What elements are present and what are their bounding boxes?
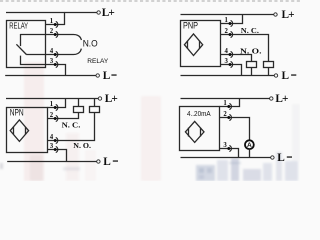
svg-text:1: 1 <box>50 18 54 25</box>
svg-text:4..20mA: 4..20mA <box>187 109 211 118</box>
svg-text:4: 4 <box>225 48 229 55</box>
svg-text:3: 3 <box>50 143 54 150</box>
svg-text:2: 2 <box>50 28 54 35</box>
svg-text:4: 4 <box>50 48 54 55</box>
svg-text:1: 1 <box>225 17 229 24</box>
svg-text:L+: L+ <box>282 9 295 21</box>
svg-text:2: 2 <box>223 111 227 118</box>
svg-text:N.O: N.O <box>83 39 98 49</box>
svg-text:NPN: NPN <box>10 108 24 118</box>
svg-text:PNP: PNP <box>183 20 198 30</box>
svg-text:A: A <box>247 142 252 149</box>
svg-text:N. C.: N. C. <box>241 26 259 35</box>
svg-text:1: 1 <box>223 100 227 107</box>
svg-text:2: 2 <box>50 112 54 119</box>
svg-text:N. O.: N. O. <box>240 47 262 56</box>
svg-text:N. O.: N. O. <box>73 141 91 150</box>
svg-text:L+: L+ <box>275 93 288 105</box>
svg-text:RELAY: RELAY <box>9 20 28 30</box>
svg-text:3: 3 <box>225 58 229 65</box>
svg-text:N. C.: N. C. <box>62 121 81 130</box>
svg-text:L: L <box>277 152 285 164</box>
svg-text:1: 1 <box>50 101 54 108</box>
svg-text:2: 2 <box>225 28 229 35</box>
svg-text:3: 3 <box>223 142 227 149</box>
svg-text:L: L <box>282 70 290 82</box>
svg-text:3: 3 <box>50 58 54 65</box>
svg-text:RELAY: RELAY <box>87 58 109 65</box>
svg-text:L: L <box>103 156 111 168</box>
svg-text:L+: L+ <box>102 7 115 19</box>
svg-text:4: 4 <box>50 134 54 141</box>
svg-text:L: L <box>103 70 111 82</box>
svg-text:L+: L+ <box>105 93 118 105</box>
